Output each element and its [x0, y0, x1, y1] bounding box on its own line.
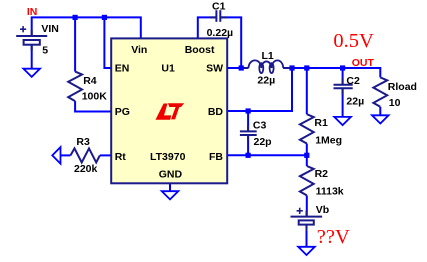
- resistor R4: [68, 72, 82, 102]
- resistor Rload: [373, 77, 387, 106]
- resistor R2: [300, 166, 314, 195]
- svg-text:Boost: Boost: [185, 44, 215, 56]
- svg-text:R3: R3: [76, 136, 90, 148]
- resistor R1: [300, 114, 314, 143]
- wire FB: [227, 154, 307, 156]
- svg-text:100K: 100K: [82, 91, 108, 103]
- wire C1 right to SW node: [221, 17, 241, 68]
- ground below Rload: [372, 115, 389, 123]
- ground rotated left of R3: [52, 147, 60, 164]
- wire R2 top: [306, 155, 308, 166]
- svg-text:??V: ??V: [317, 226, 350, 248]
- wire C2 top: [342, 68, 344, 85]
- wire R3 right to Rt pin: [100, 154, 111, 156]
- resistor R3: [71, 148, 100, 162]
- svg-text:EN: EN: [115, 63, 130, 75]
- svg-text:C1: C1: [212, 0, 226, 12]
- node junction SW/C1: [239, 65, 244, 70]
- svg-text:R4: R4: [83, 75, 97, 87]
- svg-text:0.5V: 0.5V: [333, 30, 374, 52]
- wire Rload bottom to ground: [379, 107, 381, 116]
- node junction BD/C3: [246, 108, 251, 113]
- wire GND pin stub: [169, 183, 171, 191]
- svg-text:Vb: Vb: [316, 204, 329, 216]
- wire R3 left to rotated ground: [61, 154, 71, 156]
- wire C3 top: [247, 111, 249, 130]
- svg-text:1Meg: 1Meg: [315, 135, 342, 147]
- node junction FB/R1/R2: [304, 153, 309, 158]
- voltage source Vb battery: [291, 211, 323, 232]
- svg-text:FB: FB: [209, 151, 223, 163]
- ground below Vb: [298, 247, 315, 255]
- svg-text:R2: R2: [315, 168, 329, 180]
- svg-text:5: 5: [42, 45, 48, 57]
- wire R4 bottom to PG: [75, 101, 111, 111]
- svg-text:VIN: VIN: [41, 23, 59, 35]
- svg-text:22p: 22p: [254, 136, 272, 148]
- wire C1 left to Boost: [198, 17, 217, 38]
- svg-text:Rload: Rload: [388, 81, 417, 93]
- wire BD drop: [227, 68, 292, 111]
- svg-text:IN: IN: [27, 6, 38, 18]
- svg-text:1113k: 1113k: [316, 185, 344, 197]
- wire C3 bottom: [247, 135, 249, 155]
- wire C2 bottom to ground: [342, 88, 344, 117]
- ground below VIN: [23, 69, 40, 77]
- capacitor C2: [334, 78, 353, 95]
- wire R4 top: [74, 17, 76, 71]
- node junction SW/BD: [289, 65, 294, 70]
- wire R1 top: [306, 68, 308, 114]
- svg-text:Rt: Rt: [115, 151, 127, 163]
- node junction FB/C3: [246, 153, 251, 158]
- svg-text:220k: 220k: [74, 163, 98, 175]
- capacitor C1: [210, 10, 227, 22]
- svg-text:L1: L1: [262, 50, 274, 62]
- capacitor C3: [240, 125, 257, 142]
- node junction top R4: [73, 15, 78, 20]
- svg-text:SW: SW: [206, 63, 223, 75]
- wire Vb to ground: [306, 224, 308, 247]
- svg-text:0.22µ: 0.22µ: [207, 27, 234, 39]
- svg-text:U1: U1: [161, 63, 175, 75]
- svg-text:C2: C2: [346, 75, 360, 87]
- svg-text:BD: BD: [208, 106, 224, 118]
- LT logo: [156, 103, 185, 120]
- op-amp U1 LT3970 body: [111, 38, 227, 183]
- wire SW to L1: [227, 67, 248, 69]
- svg-text:PG: PG: [115, 106, 130, 118]
- svg-text:OUT: OUT: [352, 57, 375, 69]
- svg-text:R1: R1: [314, 117, 328, 129]
- svg-text:Vin: Vin: [131, 44, 147, 56]
- svg-text:22µ: 22µ: [346, 95, 364, 107]
- node junction SW/R1: [304, 65, 309, 70]
- svg-text:GND: GND: [159, 168, 183, 180]
- inductor L1: [244, 60, 292, 73]
- wire R1 bottom: [306, 144, 308, 156]
- wire VIN to ground: [31, 45, 33, 69]
- plus sign Vb: [297, 208, 303, 214]
- svg-text:LT3970: LT3970: [150, 151, 186, 163]
- plus sign VIN: [20, 26, 26, 32]
- voltage source VIN battery: [16, 30, 47, 51]
- node junction OUT/C2: [340, 65, 345, 70]
- ground below C2: [334, 117, 351, 125]
- wire VIN top to Vin pin: [32, 17, 141, 38]
- svg-text:C3: C3: [253, 119, 267, 131]
- wire L1 to OUT corner: [283, 68, 380, 77]
- svg-text:10: 10: [389, 97, 401, 109]
- wire EN drop: [104, 17, 111, 68]
- node junction top EN: [102, 15, 107, 20]
- svg-text:22µ: 22µ: [257, 74, 275, 86]
- wire R2 to Vb: [306, 195, 308, 216]
- ground below IC GND: [162, 191, 179, 199]
